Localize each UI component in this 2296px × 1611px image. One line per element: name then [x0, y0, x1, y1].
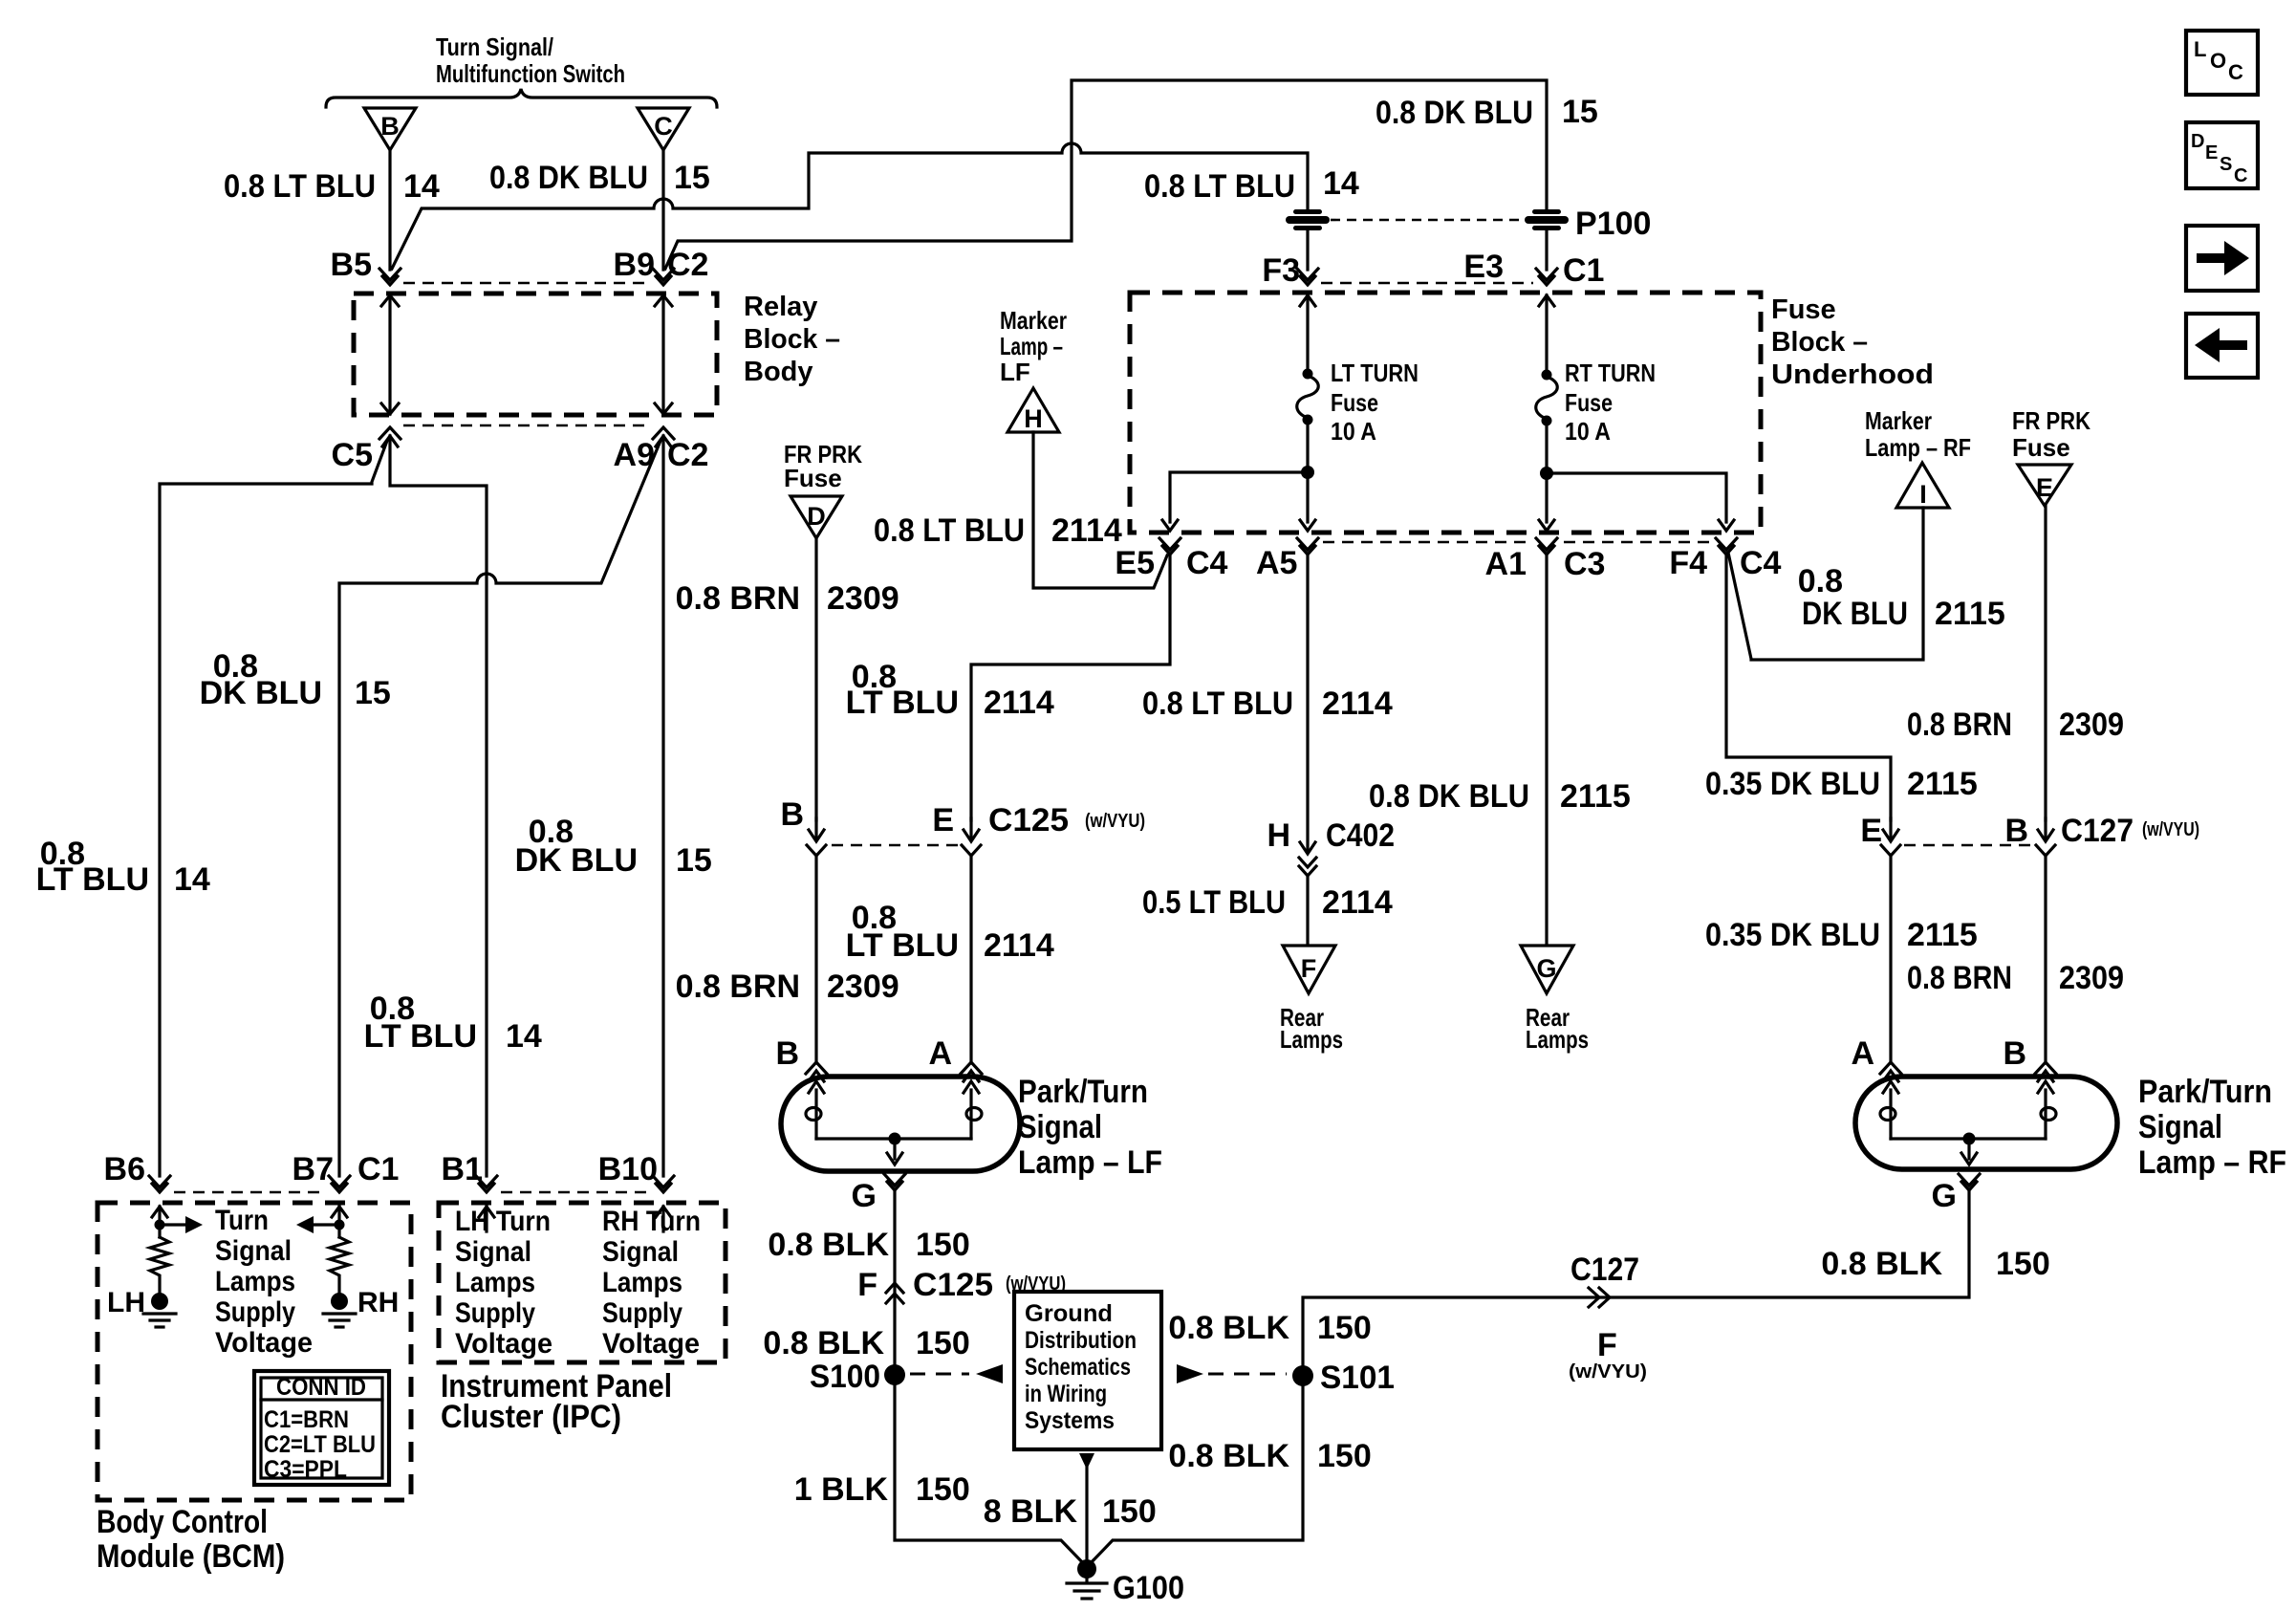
- svg-text:E: E: [1860, 813, 1882, 849]
- wire 0.8 BLK 150 lamp LF ground lead: [893, 1190, 896, 1371]
- svg-text:B7: B7: [292, 1151, 334, 1187]
- terminal chevron A lamp RF: [1880, 1062, 1901, 1081]
- svg-text:(w/VYU): (w/VYU): [1085, 811, 1145, 832]
- dashed reference ground distribution to S101: [1177, 1364, 1287, 1383]
- svg-text:2115: 2115: [1935, 596, 2005, 632]
- connector C5: [332, 427, 401, 473]
- svg-text:C3=PPL: C3=PPL: [264, 1456, 347, 1483]
- svg-text:2114: 2114: [984, 927, 1054, 964]
- svg-text:C402: C402: [1326, 817, 1395, 854]
- label 0.8 DK BLU 15 for B7: [200, 648, 391, 711]
- body control module box: [97, 1203, 411, 1500]
- svg-text:S: S: [2220, 154, 2232, 175]
- svg-text:Voltage: Voltage: [602, 1328, 700, 1360]
- svg-text:2114: 2114: [1322, 884, 1393, 921]
- svg-text:0.8 BLK: 0.8 BLK: [1168, 1310, 1289, 1346]
- arrow from ground distribution box down: [1079, 1453, 1094, 1562]
- lamp park/turn signal LF body: [781, 1077, 1020, 1171]
- svg-text:B5: B5: [331, 247, 372, 283]
- svg-text:0.8 DK BLU: 0.8 DK BLU: [1369, 778, 1529, 815]
- fuse RT TURN 10A: [1536, 370, 1558, 426]
- svg-text:C4: C4: [1740, 545, 1782, 581]
- svg-text:Voltage: Voltage: [215, 1327, 313, 1359]
- label 1 BLK 150: [794, 1471, 970, 1508]
- label Park/Turn Signal Lamp - RF: [2138, 1074, 2286, 1181]
- svg-text:H: H: [1024, 404, 1043, 433]
- connector B6: [104, 1151, 170, 1192]
- svg-text:C125: C125: [988, 802, 1069, 838]
- lamp RF filament right: [2038, 1081, 2056, 1139]
- svg-text:2309: 2309: [827, 969, 899, 1005]
- svg-text:Supply: Supply: [602, 1297, 682, 1329]
- svg-text:A5: A5: [1256, 545, 1297, 581]
- svg-text:Lamp – RF: Lamp – RF: [1865, 433, 1971, 462]
- dashed link P100: [1331, 219, 1526, 222]
- label 0.8 LT BLU 2114 lower: [846, 900, 1054, 964]
- connector triangle F rear lamps: [1283, 946, 1335, 993]
- fuse LT TURN 10A: [1297, 369, 1319, 425]
- svg-text:150: 150: [916, 1471, 970, 1508]
- wire into RT TURN fuse: [1539, 295, 1554, 373]
- svg-text:F: F: [1301, 954, 1317, 983]
- junction LT: [1301, 466, 1314, 479]
- label Park/Turn Signal Lamp - LF: [1018, 1074, 1162, 1181]
- label 0.8 BRN 2309 lower: [676, 969, 899, 1005]
- label 0.8 BLK 150 above S101: [1168, 1310, 1371, 1346]
- svg-text:C125: C125: [913, 1267, 993, 1303]
- splice S101: [1292, 1360, 1395, 1396]
- svg-text:Signal: Signal: [455, 1236, 531, 1268]
- connector E5 C4: [1115, 538, 1227, 581]
- ground distribution schematics box: [1014, 1292, 1161, 1449]
- svg-text:C5: C5: [332, 437, 373, 473]
- ground RH internal: [323, 1293, 356, 1327]
- wire into LT TURN fuse: [1300, 295, 1315, 372]
- connector E3 C1: [1463, 249, 1604, 289]
- terminal chevron A lamp LF: [961, 1062, 982, 1081]
- label FR PRK Fuse left: [784, 440, 862, 492]
- svg-text:Body Control: Body Control: [97, 1504, 268, 1540]
- svg-text:E: E: [2036, 473, 2053, 502]
- svg-text:2115: 2115: [1560, 778, 1631, 815]
- wire 0.8 LT BLU 14 from C5 to B6 (BCM): [160, 441, 387, 1176]
- svg-text:0.8 LT BLU: 0.8 LT BLU: [1144, 168, 1295, 205]
- svg-text:C4: C4: [1186, 545, 1228, 581]
- wire 0.8 LT BLU 14 from B to B5: [388, 150, 391, 270]
- ground LH internal: [143, 1293, 176, 1327]
- label 0.8 BLK 150 below S101: [1168, 1438, 1371, 1474]
- svg-text:2309: 2309: [827, 580, 899, 617]
- svg-text:0.8 BLK: 0.8 BLK: [768, 1227, 889, 1263]
- svg-text:Schematics: Schematics: [1025, 1354, 1131, 1381]
- svg-text:150: 150: [1317, 1310, 1372, 1346]
- connector H C402: [1267, 817, 1395, 876]
- label RT TURN Fuse 10 A: [1565, 359, 1656, 446]
- label 0.8 LT BLU 14 left: [36, 836, 210, 898]
- svg-text:Ground: Ground: [1025, 1300, 1113, 1327]
- instrument panel cluster box: [439, 1203, 726, 1362]
- svg-text:H: H: [1267, 817, 1290, 854]
- wire 0.8 BRN 2309 from D to B C125: [814, 538, 817, 820]
- svg-text:LH Turn: LH Turn: [455, 1206, 551, 1237]
- dashed reference S100 to ground distribution: [910, 1364, 1003, 1383]
- svg-text:E: E: [2205, 142, 2218, 163]
- svg-text:RH Turn: RH Turn: [602, 1206, 701, 1237]
- svg-text:Lamp –: Lamp –: [1000, 332, 1063, 360]
- svg-text:Distribution: Distribution: [1025, 1327, 1137, 1354]
- wire 0.8 LT BLU 2114 from C125 to lamp A: [969, 856, 972, 1063]
- wire 0.35 DK BLU 2115 from F4 to E C127: [1726, 555, 1891, 820]
- svg-text:C: C: [2228, 60, 2243, 84]
- resistor LH turn signal supply: [150, 1237, 169, 1293]
- wire 0.8 DK BLU 15 from C2 to B10 (IPC): [661, 436, 664, 1176]
- dashed connector interface B5-B9: [403, 282, 650, 285]
- svg-text:Voltage: Voltage: [455, 1328, 552, 1360]
- svg-text:Body: Body: [744, 357, 813, 387]
- label 0.35 DK BLU 2115 upper: [1705, 766, 1978, 802]
- svg-text:LF: LF: [1000, 358, 1030, 386]
- svg-text:2115: 2115: [1907, 917, 1978, 953]
- label 0.8 DK BLU 15 for B10: [515, 814, 712, 879]
- label 0.8 LT BLU 2114 two-line: [846, 659, 1054, 721]
- svg-text:14: 14: [1323, 165, 1359, 202]
- label 0.8 LT BLU 14 for B1: [364, 991, 542, 1055]
- label LH Turn Signal Lamps Supply Voltage: [455, 1206, 552, 1360]
- lamp LF filament right: [964, 1081, 982, 1139]
- wire 0.35 DK BLU 2115 from C127 to lamp A: [1889, 856, 1892, 1063]
- label 0.35 DK BLU 2115 lower: [1705, 917, 1978, 953]
- junction RT: [1540, 467, 1553, 480]
- svg-text:F: F: [857, 1267, 877, 1303]
- svg-text:Lamps: Lamps: [1280, 1025, 1343, 1054]
- connector triangle C: [638, 108, 689, 150]
- svg-text:B: B: [2003, 1035, 2026, 1072]
- svg-text:Lamps: Lamps: [215, 1266, 295, 1297]
- svg-text:0.8 LT BLU: 0.8 LT BLU: [1142, 686, 1293, 722]
- svg-text:0.8 BLK: 0.8 BLK: [1821, 1246, 1942, 1282]
- svg-text:O: O: [2210, 49, 2226, 73]
- BCM LH input arrow: [152, 1207, 167, 1237]
- connector E C125 w/VYU: [932, 802, 1145, 856]
- svg-text:0.8 BLK: 0.8 BLK: [763, 1325, 884, 1361]
- svg-text:C1=BRN: C1=BRN: [264, 1406, 349, 1433]
- svg-text:C: C: [654, 112, 673, 141]
- wire branch to F4: [1547, 473, 1734, 531]
- label Rear Lamps right: [1526, 1003, 1589, 1054]
- svg-text:0.8 BRN: 0.8 BRN: [1907, 707, 2012, 743]
- lamp LF internal bus: [816, 1137, 971, 1140]
- dashed connector interface C127: [1904, 844, 2032, 847]
- CONN ID table: [254, 1371, 389, 1485]
- label RH Turn Signal Lamps Supply Voltage: [602, 1206, 701, 1360]
- label Rear Lamps left: [1280, 1003, 1343, 1054]
- svg-text:Signal: Signal: [215, 1235, 292, 1267]
- svg-text:B: B: [775, 1035, 799, 1072]
- svg-text:E: E: [932, 802, 954, 838]
- wire 0.8 DK BLU 15 from C to B9: [661, 150, 664, 270]
- connector P100 grommet left half: [1286, 209, 1330, 230]
- svg-text:Fuse: Fuse: [1565, 388, 1613, 417]
- IPC B10 input arrow: [656, 1207, 671, 1231]
- svg-text:0.8 BRN: 0.8 BRN: [1907, 960, 2012, 996]
- junction lamp RF: [1963, 1133, 1976, 1145]
- svg-text:Lamps: Lamps: [1526, 1025, 1589, 1054]
- svg-text:2115: 2115: [1907, 766, 1978, 802]
- svg-text:Lamp – RF: Lamp – RF: [2138, 1144, 2286, 1181]
- svg-text:1 BLK: 1 BLK: [794, 1471, 889, 1508]
- wire 0.8 BRN 2309 from C127 to lamp B: [2044, 856, 2047, 1063]
- connector G lamp LF: [852, 1174, 905, 1214]
- svg-text:Lamps: Lamps: [455, 1267, 535, 1298]
- label Marker Lamp - LF: [1000, 306, 1067, 386]
- svg-text:C2=LT BLU: C2=LT BLU: [264, 1431, 376, 1458]
- svg-text:D: D: [2191, 131, 2204, 152]
- svg-text:B9: B9: [614, 247, 655, 283]
- svg-text:L: L: [2194, 37, 2206, 61]
- svg-text:C3: C3: [1564, 546, 1605, 582]
- svg-text:0.8 LT BLU: 0.8 LT BLU: [224, 168, 376, 205]
- svg-text:RH: RH: [357, 1287, 399, 1318]
- svg-text:Block –: Block –: [744, 324, 840, 355]
- LOC button: [2186, 31, 2258, 95]
- wire through relay block left: [381, 295, 399, 414]
- wire 0.8 LT BLU 2114 from A5 to H C402: [1306, 555, 1309, 852]
- wire 0.8 LT BLU 14 from C5 to B1 (IPC): [390, 436, 487, 1176]
- svg-text:Park/Turn: Park/Turn: [2138, 1074, 2272, 1110]
- wire 0.8 BRN 2309 from E to B C127: [2044, 506, 2047, 820]
- svg-text:P100: P100: [1575, 206, 1651, 242]
- back arrow button: [2186, 314, 2258, 378]
- svg-text:Marker: Marker: [1865, 406, 1932, 435]
- label Turn Signal / Multifunction Switch: [436, 33, 625, 88]
- wire through relay block right: [655, 295, 672, 414]
- connector A1 C3: [1485, 538, 1606, 582]
- svg-text:2114: 2114: [1322, 686, 1393, 722]
- svg-text:Block –: Block –: [1771, 327, 1868, 358]
- svg-text:0.8 BRN: 0.8 BRN: [676, 580, 800, 617]
- svg-text:C: C: [2234, 165, 2247, 186]
- junction lamp LF: [889, 1133, 901, 1145]
- wire branch to E5: [1162, 472, 1308, 531]
- svg-text:Relay: Relay: [744, 292, 817, 322]
- svg-text:LT BLU: LT BLU: [846, 927, 959, 964]
- label 0.8 DK BLU 15: [489, 160, 710, 196]
- ground G100: [1067, 1559, 1184, 1606]
- svg-text:G: G: [852, 1178, 877, 1214]
- svg-text:S100: S100: [810, 1359, 880, 1395]
- lamp park/turn signal RF body: [1855, 1077, 2117, 1169]
- svg-text:Systems: Systems: [1025, 1407, 1115, 1434]
- connector B7 C1: [292, 1151, 400, 1192]
- connector B1: [442, 1151, 497, 1192]
- svg-text:F4: F4: [1669, 545, 1707, 581]
- lamp RF internal bus: [1891, 1137, 2046, 1140]
- svg-text:Supply: Supply: [215, 1296, 295, 1328]
- label Relay Block - Body: [744, 292, 840, 387]
- label 0.8 BRN 2309 right upper: [1907, 707, 2124, 743]
- svg-text:0.8 DK BLU: 0.8 DK BLU: [489, 160, 648, 196]
- svg-text:0.8 DK BLU: 0.8 DK BLU: [1375, 95, 1533, 131]
- label Turn Signal Lamps Supply Voltage BCM: [215, 1205, 313, 1359]
- svg-text:DK BLU: DK BLU: [200, 675, 322, 711]
- lamp LF ground lead arrow: [887, 1139, 902, 1165]
- wire to A1: [1539, 473, 1554, 531]
- svg-text:G100: G100: [1113, 1570, 1184, 1606]
- svg-text:D: D: [807, 502, 826, 531]
- svg-text:F: F: [1597, 1327, 1617, 1363]
- svg-text:2309: 2309: [2059, 707, 2124, 743]
- connector G lamp RF: [1932, 1174, 1980, 1214]
- connector C127 F w/VYU: [1569, 1252, 1647, 1382]
- connector E C127: [1860, 813, 1900, 856]
- svg-text:0.35 DK BLU: 0.35 DK BLU: [1705, 917, 1880, 953]
- label 8 BLK 150: [984, 1493, 1157, 1530]
- label Fuse Block - Underhood: [1771, 294, 1934, 390]
- label 0.8 DK BLU 15 top: [1375, 94, 1598, 131]
- svg-text:2114: 2114: [984, 685, 1054, 721]
- connector triangle B: [364, 108, 416, 150]
- svg-text:Marker: Marker: [1000, 306, 1067, 335]
- label 0.8 DK BLU 2115 two-line: [1798, 563, 2005, 632]
- svg-text:C127: C127: [2061, 813, 2134, 849]
- brace over multifunction switch connectors: [326, 89, 717, 107]
- svg-text:C2: C2: [667, 437, 708, 473]
- svg-text:10 A: 10 A: [1331, 417, 1376, 446]
- dashed connector interface C5-A9: [403, 425, 650, 427]
- label 0.8 BLK 150 lamp RF: [1821, 1246, 2049, 1282]
- svg-text:10 A: 10 A: [1565, 417, 1611, 446]
- dashed connector interface F3-E3: [1321, 282, 1533, 285]
- connector B C125: [780, 796, 826, 856]
- svg-text:DK BLU: DK BLU: [515, 842, 638, 879]
- label 0.5 LT BLU 2114: [1142, 884, 1393, 921]
- svg-text:15: 15: [674, 160, 710, 196]
- svg-text:0.35 DK BLU: 0.35 DK BLU: [1705, 766, 1880, 802]
- svg-text:B10: B10: [598, 1151, 658, 1187]
- svg-text:Cluster (IPC): Cluster (IPC): [441, 1399, 621, 1435]
- wire 0.8 BLK 150 from S101 to G100: [1087, 1386, 1303, 1567]
- label 0.8 LT BLU 2114 A5: [1142, 686, 1393, 722]
- wire 0.8 DK BLU 2115 from A1 to rear lamps G: [1545, 555, 1548, 944]
- wire 0.8 LT BLU 2114 from E5 to E C125: [971, 555, 1170, 820]
- svg-text:LT BLU: LT BLU: [364, 1018, 477, 1055]
- label Body Control Module (BCM): [97, 1504, 285, 1575]
- connector B9 C2: [614, 247, 709, 285]
- svg-text:Park/Turn: Park/Turn: [1018, 1074, 1148, 1110]
- label 0.8 LT BLU 14 at F3: [1144, 165, 1359, 205]
- svg-text:14: 14: [174, 861, 210, 898]
- dashed connector interface fuse block bottom: [1323, 541, 1529, 544]
- svg-text:G: G: [1536, 954, 1556, 983]
- BCM RH input arrow: [332, 1207, 347, 1237]
- label 0.8 DK BLU 2115: [1369, 778, 1631, 815]
- wire 0.5 LT BLU 2114 to rear lamps F: [1306, 876, 1309, 944]
- svg-text:Lamps: Lamps: [602, 1267, 682, 1298]
- svg-text:LT BLU: LT BLU: [36, 861, 149, 898]
- wire 0.8 BLK 150 from S101 to lamp RF G via C127: [1303, 1190, 1969, 1365]
- svg-text:0.8 LT BLU: 0.8 LT BLU: [874, 512, 1025, 549]
- IPC B1 input arrow: [479, 1207, 494, 1231]
- wire from LT fuse to junction: [1306, 420, 1309, 472]
- svg-text:0.8 BLK: 0.8 BLK: [1168, 1438, 1289, 1474]
- svg-text:E3: E3: [1463, 249, 1504, 285]
- connector triangle H marker lamp LF: [1007, 388, 1059, 433]
- svg-text:15: 15: [355, 675, 391, 711]
- svg-text:in Wiring: in Wiring: [1025, 1381, 1107, 1407]
- svg-text:LH: LH: [107, 1287, 145, 1318]
- label 0.8 BRN 2309 upper: [676, 580, 899, 617]
- dashed connector interface C125: [832, 844, 958, 847]
- svg-text:150: 150: [916, 1325, 970, 1361]
- svg-text:I: I: [1919, 480, 1927, 509]
- svg-text:Signal: Signal: [602, 1236, 679, 1268]
- svg-text:Fuse: Fuse: [1771, 294, 1836, 325]
- svg-text:14: 14: [506, 1018, 542, 1055]
- label Instrument Panel Cluster (IPC): [441, 1368, 672, 1435]
- connector triangle D FR PRK fuse: [791, 496, 842, 538]
- resistor RH turn signal supply: [330, 1237, 349, 1293]
- svg-text:Turn: Turn: [215, 1205, 269, 1236]
- connector triangle E FR PRK fuse: [2018, 465, 2071, 506]
- svg-text:0.8: 0.8: [1798, 563, 1843, 599]
- connector triangle I marker lamp RF: [1896, 463, 1949, 509]
- svg-text:LT BLU: LT BLU: [846, 685, 959, 721]
- svg-text:(w/VYU): (w/VYU): [1569, 1361, 1647, 1382]
- svg-text:B: B: [780, 796, 804, 833]
- svg-text:Underhood: Underhood: [1771, 359, 1934, 390]
- DESC button: [2186, 122, 2258, 188]
- lamp RF filament left: [1880, 1081, 1898, 1139]
- svg-text:RT TURN: RT TURN: [1565, 359, 1656, 387]
- svg-text:150: 150: [916, 1227, 970, 1263]
- wire 0.8 LT BLU 2114 from E5 to marker lamp H: [1033, 432, 1167, 588]
- label FR PRK Fuse right: [2012, 406, 2090, 462]
- wire 0.8 LT BLU 14 from B5 to F3: [392, 143, 1308, 269]
- svg-text:B1: B1: [442, 1151, 483, 1187]
- wire 0.8 DK BLU 2115 from F4 to marker lamp I: [1728, 508, 1923, 660]
- svg-text:FR PRK: FR PRK: [2012, 406, 2090, 435]
- svg-text:Supply: Supply: [455, 1297, 535, 1329]
- label 0.8 LT BLU 14: [224, 168, 440, 205]
- svg-text:A: A: [1851, 1035, 1874, 1072]
- svg-text:CONN ID: CONN ID: [276, 1374, 366, 1401]
- svg-text:Signal: Signal: [2138, 1109, 2222, 1145]
- svg-text:C1: C1: [357, 1151, 399, 1187]
- wire 0.8 DK BLU 15 from B9 to E3: [665, 80, 1547, 269]
- svg-text:(w/VYU): (w/VYU): [2142, 819, 2199, 840]
- svg-text:Signal: Signal: [1018, 1109, 1102, 1145]
- next arrow button: [2186, 226, 2258, 291]
- connector B5: [331, 247, 401, 285]
- BCM LH signal arrow right: [160, 1216, 203, 1233]
- splice S100: [810, 1359, 905, 1395]
- svg-text:Fuse: Fuse: [784, 464, 842, 492]
- svg-text:LT TURN: LT TURN: [1331, 359, 1419, 387]
- wire 1 BLK 150 from S100 to G100: [895, 1385, 1087, 1567]
- label Marker Lamp - RF: [1865, 406, 1971, 462]
- svg-text:B: B: [380, 112, 400, 141]
- svg-text:B6: B6: [104, 1151, 145, 1187]
- connector B C127 w/VYU: [2004, 813, 2199, 856]
- lamp LF filament left: [806, 1081, 824, 1139]
- connector triangle G rear lamps: [1521, 946, 1573, 993]
- svg-text:S101: S101: [1320, 1360, 1395, 1396]
- relay block body box: [354, 294, 717, 415]
- connector P100 grommet right half: [1525, 209, 1569, 230]
- terminal chevron B lamp LF: [806, 1062, 827, 1081]
- svg-text:0.5 LT BLU: 0.5 LT BLU: [1142, 884, 1286, 921]
- svg-text:Fuse: Fuse: [2012, 433, 2070, 462]
